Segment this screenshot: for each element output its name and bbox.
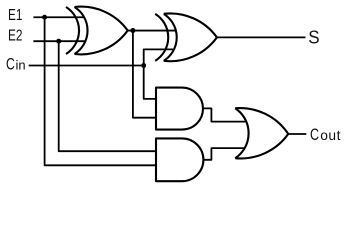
svg-text:C: C: [6, 56, 15, 74]
wire XOR1 output to XOR2 upper input: [127, 30, 176, 32]
xor gate XOR2 body: [164, 13, 217, 61]
and gate AND2: [156, 138, 203, 181]
wire AND2 output to OR lower input: [203, 148, 245, 160]
wire Cin input: [29, 65, 144, 67]
svg-text:in: in: [16, 57, 26, 72]
wire AND1 output to OR upper input: [203, 108, 247, 121]
junction dot XOR1 output: [130, 28, 135, 33]
wire S output: [216, 36, 306, 38]
wire Cin branch up to XOR2 lower input: [144, 49, 174, 65]
wire Cout output: [288, 133, 306, 135]
svg-text:E1: E1: [8, 5, 23, 23]
svg-text:out: out: [320, 128, 341, 143]
and gate AND1: [156, 88, 203, 130]
or gate OR1: [235, 108, 288, 158]
svg-text:E2: E2: [8, 26, 23, 44]
label Cout: [310, 125, 341, 144]
wire E1 input: [33, 16, 84, 18]
wire E1 branch down to AND2 lower input: [45, 17, 156, 165]
junction dot Cin: [141, 63, 146, 68]
wire XOR1 output branch down to AND1 lower input: [133, 31, 156, 118]
junction dot E1: [42, 15, 47, 20]
wire Cin branch down to AND1 upper input: [144, 66, 156, 99]
xor gate XOR1 input arc: [66, 7, 79, 54]
junction dot E2: [56, 39, 61, 44]
xor gate XOR2 input arc: [155, 14, 168, 61]
svg-text:S: S: [308, 27, 319, 48]
label Cin: [6, 56, 26, 74]
wire E2 input: [33, 40, 85, 42]
svg-text:C: C: [310, 125, 319, 144]
wire E2 branch down to AND2 upper input: [59, 41, 156, 151]
xor gate XOR1 body: [75, 7, 128, 55]
